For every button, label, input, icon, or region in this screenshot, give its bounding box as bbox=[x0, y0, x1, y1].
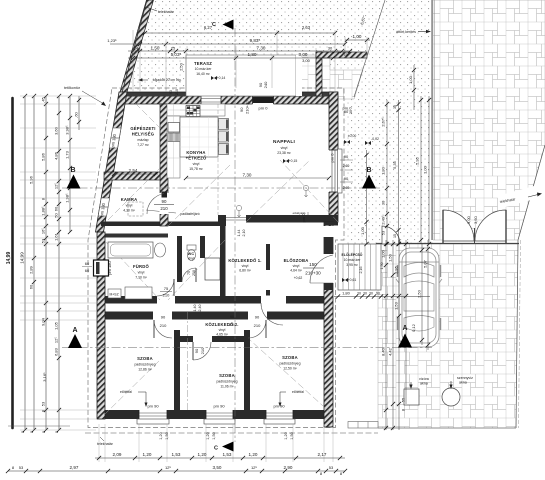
ablak note nappali bbox=[293, 211, 308, 215]
attort kerites label bbox=[396, 30, 431, 34]
svg-text:FÜRDŐ: FÜRDŐ bbox=[133, 264, 149, 269]
svg-text:NAPPALI: NAPPALI bbox=[273, 139, 296, 145]
svg-text:5,07: 5,07 bbox=[423, 259, 428, 268]
svg-text:5,95: 5,95 bbox=[415, 156, 420, 165]
room label WC bbox=[188, 252, 195, 261]
shaft bbox=[205, 258, 220, 280]
svg-text:3,98⁵: 3,98⁵ bbox=[65, 125, 70, 135]
marker B right bbox=[362, 167, 376, 189]
svg-text:210+30: 210+30 bbox=[245, 100, 250, 114]
svg-text:210: 210 bbox=[192, 270, 196, 276]
padlasfeljaro arrow bbox=[146, 210, 176, 213]
kamra door gap bbox=[160, 193, 169, 214]
svg-text:9,83⁵: 9,83⁵ bbox=[250, 38, 261, 43]
svg-text:5,03⁵: 5,03⁵ bbox=[171, 52, 182, 57]
auxiliary dash line bedrooms bbox=[187, 312, 189, 412]
svg-text:vinyl: vinyl bbox=[242, 264, 249, 268]
svg-text:padlószőnyeg: padlószőnyeg bbox=[135, 363, 156, 367]
west wall lower bbox=[97, 232, 105, 419]
stippled yard east strip bbox=[345, 96, 433, 244]
svg-text:vízóra: vízóra bbox=[419, 377, 429, 381]
svg-text:30: 30 bbox=[357, 292, 361, 296]
entrance steps bbox=[338, 244, 381, 290]
svg-text:,60: ,60 bbox=[74, 111, 79, 117]
south wall bbox=[101, 410, 333, 419]
svg-text:2,89: 2,89 bbox=[29, 265, 34, 274]
svg-text:telekhatár: telekhatár bbox=[158, 10, 175, 14]
svg-text:90: 90 bbox=[344, 176, 349, 181]
svg-text:SZOBA: SZOBA bbox=[219, 373, 235, 378]
svg-text:90: 90 bbox=[230, 315, 234, 319]
svg-text:30: 30 bbox=[363, 292, 367, 296]
svg-text:210: 210 bbox=[254, 323, 261, 328]
svg-text:4,86: 4,86 bbox=[54, 151, 59, 160]
svg-text:60: 60 bbox=[54, 206, 59, 211]
svg-text:10.máz.ker: 10.máz.ker bbox=[344, 258, 362, 262]
washbasin bbox=[155, 243, 166, 257]
svg-text:±0,00: ±0,00 bbox=[348, 134, 357, 138]
striped appliance bbox=[168, 133, 180, 142]
car bbox=[396, 248, 442, 347]
front door size bbox=[303, 262, 324, 276]
svg-text:1,20: 1,20 bbox=[206, 432, 210, 439]
terrace door size bbox=[258, 81, 268, 88]
svg-text:mázlap: mázlap bbox=[138, 138, 149, 142]
chairs bbox=[219, 119, 229, 155]
roof contour dashed bbox=[88, 88, 344, 428]
kamra door leaf bbox=[162, 192, 168, 198]
svg-text:1,50: 1,50 bbox=[388, 253, 393, 262]
bottom dimension rows bbox=[6, 424, 347, 476]
svg-text:B: B bbox=[70, 167, 75, 174]
section line A-A bbox=[62, 347, 432, 349]
svg-text:vinyl: vinyl bbox=[138, 271, 145, 275]
washer bbox=[125, 287, 152, 299]
svg-text:1,73: 1,73 bbox=[65, 150, 70, 159]
svg-text:GÉPÉSZETI: GÉPÉSZETI bbox=[130, 126, 155, 131]
telekhatar label right bbox=[497, 183, 545, 208]
svg-text:pm 0: pm 0 bbox=[259, 106, 269, 111]
svg-text:30: 30 bbox=[393, 105, 397, 109]
svg-text:2,09: 2,09 bbox=[113, 452, 122, 457]
west vent box bbox=[94, 260, 109, 276]
tetokontur label bbox=[64, 86, 106, 106]
svg-text:240: 240 bbox=[343, 163, 350, 168]
svg-text:1,40: 1,40 bbox=[193, 305, 197, 312]
svg-text:0,12: 0,12 bbox=[411, 323, 416, 332]
road line below gate bbox=[376, 243, 519, 245]
svg-text:akna: akna bbox=[459, 381, 467, 385]
svg-text:210: 210 bbox=[200, 347, 205, 354]
svg-text:53: 53 bbox=[381, 230, 386, 235]
elotetfal label east bbox=[279, 390, 305, 407]
svg-text:15: 15 bbox=[344, 52, 349, 57]
svg-text:12,86 m²: 12,86 m² bbox=[138, 368, 152, 372]
svg-text:-0,02: -0,02 bbox=[371, 137, 379, 141]
stippled yard top bbox=[125, 0, 433, 96]
svg-text:60: 60 bbox=[85, 268, 90, 273]
svg-text:1,00: 1,00 bbox=[381, 249, 386, 258]
telekhatar label top-left bbox=[146, 7, 175, 14]
svg-text:8: 8 bbox=[55, 431, 59, 433]
room label KONYHA bbox=[186, 150, 207, 171]
bottom boundary dashed bbox=[85, 432, 378, 434]
svg-text:KAMRA: KAMRA bbox=[121, 197, 138, 202]
svg-text:pm 90: pm 90 bbox=[273, 404, 285, 409]
svg-text:1,20: 1,20 bbox=[143, 452, 152, 457]
svg-text:16,40 m²: 16,40 m² bbox=[196, 72, 210, 76]
padlasfeljaro label bbox=[180, 212, 199, 216]
east window size labels bbox=[340, 154, 353, 190]
svg-text:2,50: 2,50 bbox=[179, 62, 184, 71]
svg-text:pm 90: pm 90 bbox=[213, 404, 225, 409]
konyha-nappali opening size bbox=[239, 100, 250, 114]
svg-text:7,27 m²: 7,27 m² bbox=[137, 143, 149, 147]
property line right diagonal bbox=[518, 145, 545, 240]
svg-text:5,35: 5,35 bbox=[392, 160, 397, 169]
svg-text:8: 8 bbox=[30, 431, 34, 433]
svg-text:60: 60 bbox=[29, 284, 34, 289]
east wall upper bbox=[329, 92, 338, 222]
svg-text:2,10: 2,10 bbox=[242, 230, 246, 237]
paving driveway lower right bbox=[378, 244, 518, 428]
corridor opening size bbox=[237, 230, 246, 237]
svg-text:C: C bbox=[212, 22, 216, 28]
svg-text:1,80: 1,80 bbox=[248, 52, 257, 57]
svg-text:240: 240 bbox=[263, 81, 268, 88]
svg-text:53: 53 bbox=[41, 401, 46, 406]
entrance door gap bbox=[324, 254, 334, 283]
svg-text:2,97: 2,97 bbox=[70, 465, 79, 470]
svg-text:2,63: 2,63 bbox=[302, 25, 311, 30]
svg-text:1,00: 1,00 bbox=[423, 165, 428, 174]
svg-text:1,61: 1,61 bbox=[54, 232, 59, 241]
svg-text:60: 60 bbox=[85, 261, 90, 266]
fogadal note bbox=[138, 78, 181, 82]
svg-text:8: 8 bbox=[42, 431, 46, 433]
kozlekedo2 stub walls bbox=[174, 336, 193, 342]
svg-text:3,00: 3,00 bbox=[302, 58, 311, 63]
svg-text:KÖZLEKEDŐ 1.: KÖZLEKEDŐ 1. bbox=[228, 258, 261, 263]
room label FURDO bbox=[133, 264, 149, 280]
svg-text:1,53: 1,53 bbox=[223, 452, 232, 457]
svg-text:SZOBA: SZOBA bbox=[282, 355, 298, 360]
pedestrian gate arc bbox=[382, 226, 400, 244]
svg-text:pm 0: pm 0 bbox=[301, 213, 306, 223]
svg-text:5,86: 5,86 bbox=[41, 152, 46, 161]
svg-text:2,40: 2,40 bbox=[198, 305, 202, 312]
svg-text:,45: ,45 bbox=[41, 96, 46, 102]
svg-text:A: A bbox=[402, 325, 407, 332]
gate arcs bbox=[443, 210, 506, 243]
svg-text:1,20: 1,20 bbox=[159, 432, 163, 439]
svg-text:90: 90 bbox=[162, 199, 167, 204]
svg-text:padlásfeljáró: padlásfeljáró bbox=[180, 212, 199, 216]
svg-text:1,20: 1,20 bbox=[198, 452, 207, 457]
svg-text:210: 210 bbox=[163, 293, 170, 298]
corridor west wall bbox=[220, 215, 226, 296]
svg-text:1,50: 1,50 bbox=[380, 263, 384, 270]
terrace floor bbox=[186, 55, 296, 96]
svg-text:2,67⁵: 2,67⁵ bbox=[381, 117, 386, 127]
svg-text:90: 90 bbox=[169, 90, 173, 94]
elotetfal label west bbox=[120, 390, 147, 407]
marker B left bbox=[67, 167, 81, 189]
section line B-B bbox=[62, 187, 380, 189]
wc door size bbox=[187, 270, 196, 276]
svg-text:90: 90 bbox=[376, 292, 380, 296]
svg-text:KÖZLEKEDŐ 2.: KÖZLEKEDŐ 2. bbox=[205, 322, 238, 327]
svg-text:30: 30 bbox=[349, 110, 353, 114]
se connector bbox=[324, 222, 338, 226]
bathtub bbox=[108, 242, 153, 258]
marker A left bbox=[68, 327, 82, 348]
svg-text:4,64 m²: 4,64 m² bbox=[290, 269, 302, 273]
svg-text:2,17: 2,17 bbox=[318, 452, 327, 457]
elevation +0,62 bbox=[294, 276, 303, 280]
svg-text:34: 34 bbox=[134, 46, 139, 51]
north wall bbox=[119, 92, 338, 97]
garden steps bottom bbox=[348, 422, 378, 429]
gepeszeti-kamra wall bbox=[104, 172, 160, 180]
svg-text:10.máz.ker: 10.máz.ker bbox=[195, 67, 213, 71]
svg-text:M+SZ: M+SZ bbox=[110, 293, 119, 297]
svg-text:8,40: 8,40 bbox=[381, 347, 386, 356]
corridor north opening stub bbox=[218, 215, 226, 223]
svg-text:4,30 m²: 4,30 m² bbox=[123, 209, 135, 213]
svg-text:1,80: 1,80 bbox=[342, 291, 351, 296]
terrace door opening bbox=[251, 90, 275, 105]
svg-text:55: 55 bbox=[401, 397, 406, 402]
elevation -0,02 bbox=[365, 137, 379, 145]
svg-text:12⁵: 12⁵ bbox=[54, 183, 59, 189]
roof long-dash diagonals bbox=[104, 96, 338, 415]
driveway dimension chains bbox=[334, 240, 430, 430]
svg-text:15: 15 bbox=[393, 234, 397, 238]
bath north wall bbox=[101, 234, 168, 238]
svg-text:ELŐSZOBA: ELŐSZOBA bbox=[284, 258, 309, 263]
60 60 labels west bbox=[82, 261, 92, 273]
svg-text:30: 30 bbox=[369, 292, 373, 296]
svg-text:7,30: 7,30 bbox=[243, 173, 252, 178]
west window 1 bbox=[109, 128, 121, 148]
svg-text:1,50: 1,50 bbox=[212, 432, 216, 439]
elevation +0,14 bbox=[211, 76, 225, 80]
nappali south wall bbox=[246, 215, 338, 223]
elevation +0.00 right bbox=[344, 134, 356, 144]
svg-text:53: 53 bbox=[329, 465, 334, 470]
svg-text:+0,61: +0,61 bbox=[348, 278, 357, 282]
svg-text:25: 25 bbox=[171, 46, 176, 51]
svg-text:3,50: 3,50 bbox=[473, 215, 478, 224]
svg-text:akna: akna bbox=[420, 382, 428, 386]
marker A right bbox=[398, 325, 412, 348]
svg-text:áttört kerítés: áttört kerítés bbox=[396, 30, 416, 34]
svg-text:1,50: 1,50 bbox=[165, 432, 169, 439]
svg-text:23,38 m²: 23,38 m² bbox=[277, 151, 291, 155]
room label SZOBA middle bbox=[217, 373, 238, 389]
svg-text:pm 0: pm 0 bbox=[343, 106, 353, 111]
garden wall north bbox=[316, 52, 367, 58]
oblique boundary 6.67 bbox=[354, 0, 385, 97]
svg-text:75: 75 bbox=[164, 286, 169, 291]
band A corridor south wall bbox=[101, 296, 333, 304]
svg-text:SZOBA: SZOBA bbox=[137, 356, 153, 361]
bath door size bbox=[160, 286, 172, 298]
right yard dimension chains bbox=[344, 65, 431, 246]
svg-text:+0,15: +0,15 bbox=[289, 159, 298, 163]
svg-text:vinyl: vinyl bbox=[188, 257, 195, 261]
svg-text:12⁵: 12⁵ bbox=[165, 465, 171, 470]
kitchen divider wall bbox=[160, 104, 168, 226]
entrance door arc bbox=[310, 255, 333, 283]
svg-text:szennyvíz: szennyvíz bbox=[457, 376, 473, 380]
svg-text:15,78 m²: 15,78 m² bbox=[189, 167, 203, 171]
svg-text:+ÉTKEZŐ: +ÉTKEZŐ bbox=[186, 156, 207, 161]
svg-text:90: 90 bbox=[255, 315, 260, 320]
svg-text:2,90: 2,90 bbox=[284, 465, 293, 470]
svg-text:fogadott 20 cm vtg.: fogadott 20 cm vtg. bbox=[153, 78, 182, 82]
svg-text:50: 50 bbox=[54, 213, 59, 218]
svg-text:előtétfal: előtétfal bbox=[120, 390, 132, 394]
vizora akna (water meter shaft) bbox=[404, 377, 429, 405]
svg-text:12⁵: 12⁵ bbox=[54, 337, 59, 343]
svg-text:90: 90 bbox=[161, 315, 166, 320]
svg-text:2,95: 2,95 bbox=[394, 265, 399, 274]
svg-text:210+30: 210+30 bbox=[305, 271, 321, 276]
room label NAPPALI bbox=[273, 139, 296, 155]
bedroom partition east bbox=[244, 330, 250, 410]
kitchen counter L bbox=[167, 104, 225, 178]
svg-text:30: 30 bbox=[328, 46, 333, 51]
marker C top bbox=[212, 20, 233, 30]
attic ladder dashed box bbox=[128, 202, 143, 216]
lamp symbol corridor bbox=[236, 205, 241, 217]
svg-text:padlószőnyeg: padlószőnyeg bbox=[280, 362, 301, 366]
svg-text:1,20: 1,20 bbox=[284, 432, 288, 439]
svg-text:HELYISÉG: HELYISÉG bbox=[132, 132, 154, 137]
room label SZOBA west bbox=[135, 356, 156, 372]
fridge bbox=[168, 123, 180, 133]
svg-text:90: 90 bbox=[344, 154, 349, 159]
svg-text:WC: WC bbox=[188, 252, 195, 256]
svg-text:1,23⁵: 1,23⁵ bbox=[107, 38, 117, 43]
west window 2 bbox=[98, 198, 109, 216]
east window bbox=[329, 149, 343, 193]
svg-text:11,06 m²: 11,06 m² bbox=[220, 385, 234, 389]
svg-text:240: 240 bbox=[343, 185, 350, 190]
svg-text:1,53: 1,53 bbox=[172, 452, 181, 457]
door size labels bedroom east bbox=[254, 315, 261, 329]
room label ELOLEPCSO bbox=[342, 252, 363, 267]
svg-text:vinyl: vinyl bbox=[126, 204, 133, 208]
lamp symbol nappali bbox=[303, 185, 308, 197]
elevation +0,15 bbox=[283, 159, 297, 163]
svg-text:9,04: 9,04 bbox=[41, 317, 46, 326]
svg-text:3,60: 3,60 bbox=[54, 126, 59, 135]
svg-text:7,10 m²: 7,10 m² bbox=[135, 276, 147, 280]
terrace east wall bbox=[316, 52, 322, 96]
svg-text:1,44: 1,44 bbox=[237, 230, 241, 237]
svg-text:53: 53 bbox=[41, 238, 46, 243]
door size labels bedroom west bbox=[160, 315, 167, 329]
svg-text:7,30: 7,30 bbox=[257, 46, 266, 51]
svg-text:1,05: 1,05 bbox=[54, 321, 59, 330]
marker C bottom bbox=[214, 442, 233, 452]
svg-text:14,99: 14,99 bbox=[20, 252, 25, 264]
bedroom west door arc bbox=[154, 320, 172, 338]
svg-text:1,00: 1,00 bbox=[353, 34, 362, 39]
m+sz box bbox=[108, 289, 121, 298]
elevation +0,61 bbox=[342, 278, 356, 282]
svg-text:8: 8 bbox=[21, 431, 25, 433]
kitchen window opening bbox=[201, 92, 221, 105]
svg-text:14,99: 14,99 bbox=[6, 252, 12, 265]
svg-text:6,83: 6,83 bbox=[54, 347, 59, 356]
west diagonal wall bbox=[96, 92, 128, 232]
svg-text:3,16⁵: 3,16⁵ bbox=[42, 372, 47, 382]
eloszoba-kozlekedo2 door arc bbox=[261, 303, 283, 325]
svg-text:vinyl: vinyl bbox=[281, 146, 288, 150]
svg-text:1,00: 1,00 bbox=[360, 226, 365, 235]
svg-text:pm 0: pm 0 bbox=[330, 153, 335, 163]
svg-text:6,80 m²: 6,80 m² bbox=[239, 269, 251, 273]
dimension chain top rows bbox=[107, 25, 370, 92]
svg-text:3,00: 3,00 bbox=[466, 215, 471, 224]
bedroom east door arc bbox=[248, 320, 266, 338]
paving upper right bbox=[433, 0, 545, 240]
svg-text:210: 210 bbox=[160, 206, 168, 211]
svg-text:1,53: 1,53 bbox=[394, 301, 399, 310]
svg-text:+0,62: +0,62 bbox=[294, 276, 303, 280]
svg-text:210: 210 bbox=[175, 89, 179, 95]
svg-text:B: B bbox=[366, 167, 371, 174]
property line left (telekhatar) bbox=[119, 0, 147, 104]
room label KOZLEKEDO 2 bbox=[205, 322, 238, 337]
wc bowl bbox=[187, 245, 196, 261]
kitchen zone dashed boundary bbox=[217, 104, 219, 215]
svg-text:3,50: 3,50 bbox=[213, 465, 222, 470]
section line C-C bbox=[234, 28, 236, 442]
svg-text:1,88⁵: 1,88⁵ bbox=[41, 206, 46, 216]
interior dims bbox=[112, 62, 353, 327]
room label ELOSZOBA bbox=[284, 258, 309, 273]
svg-text:2,54: 2,54 bbox=[129, 168, 138, 173]
svg-text:3,00: 3,00 bbox=[299, 52, 308, 57]
svg-text:4,65 m²: 4,65 m² bbox=[216, 333, 228, 337]
svg-text:1,50: 1,50 bbox=[290, 432, 294, 439]
room label GEPESZETI bbox=[130, 126, 155, 147]
svg-text:5,96: 5,96 bbox=[29, 175, 34, 184]
kamra door arc bbox=[147, 194, 164, 215]
middle bedroom door arc bbox=[193, 342, 211, 360]
eloszoba divider bbox=[266, 244, 270, 296]
svg-text:vinyl: vinyl bbox=[193, 162, 200, 166]
wc left wall bbox=[177, 236, 182, 282]
svg-text:vinyl: vinyl bbox=[219, 328, 226, 332]
svg-text:A: A bbox=[72, 327, 77, 334]
east wall lower bbox=[324, 222, 333, 427]
stove checker bbox=[186, 106, 200, 117]
svg-text:TERASZ: TERASZ bbox=[194, 61, 212, 66]
room label TERASZ bbox=[194, 61, 212, 76]
svg-text:12,50 m²: 12,50 m² bbox=[283, 367, 297, 371]
svg-text:3,95 m²: 3,95 m² bbox=[346, 263, 358, 267]
room label KAMRA bbox=[121, 197, 138, 213]
wc right wall bbox=[200, 236, 205, 258]
svg-text:telekhatár: telekhatár bbox=[97, 442, 114, 446]
svg-text:padlószőnyeg: padlószőnyeg bbox=[217, 380, 238, 384]
